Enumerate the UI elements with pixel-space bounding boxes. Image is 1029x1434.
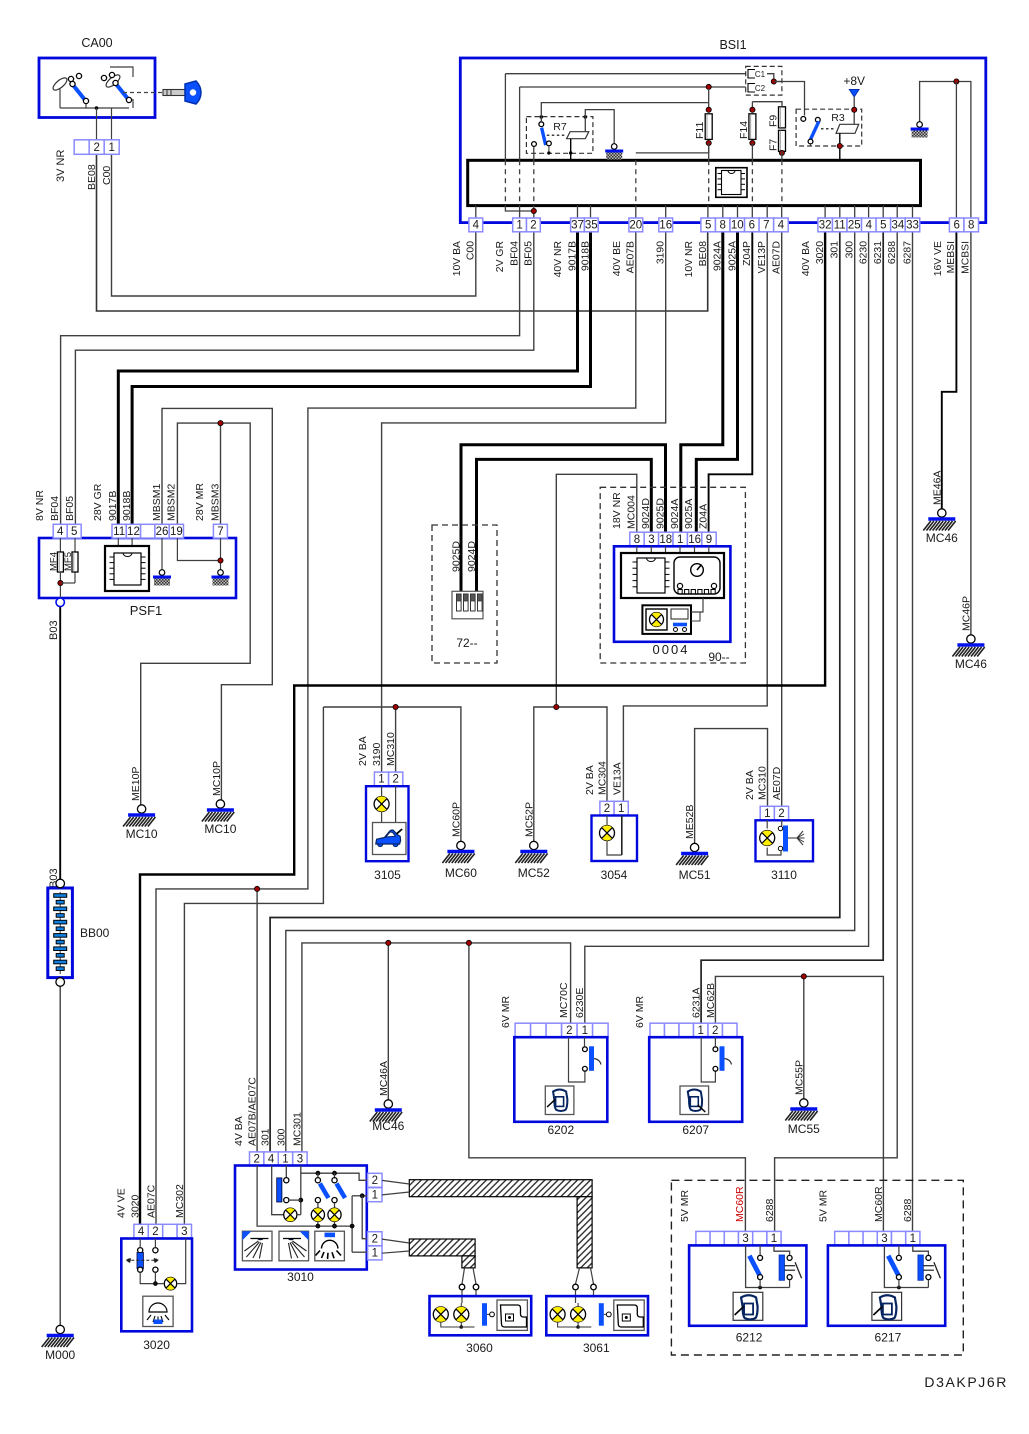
- svg-text:9017B: 9017B: [567, 241, 578, 271]
- svg-text:CA00: CA00: [81, 36, 112, 50]
- svg-text:MC60R: MC60R: [873, 1186, 885, 1222]
- svg-text:4: 4: [268, 1154, 275, 1166]
- svg-text:2V BA: 2V BA: [584, 765, 596, 795]
- svg-text:8V NR: 8V NR: [34, 490, 46, 521]
- svg-text:11: 11: [834, 220, 846, 232]
- svg-text:9025D: 9025D: [654, 498, 666, 529]
- svg-text:C1: C1: [755, 70, 766, 79]
- svg-text:4V BA: 4V BA: [233, 1116, 245, 1146]
- svg-text:2: 2: [712, 1025, 718, 1037]
- svg-text:3: 3: [648, 534, 654, 546]
- svg-text:BF04: BF04: [509, 241, 520, 266]
- svg-text:1: 1: [910, 1233, 916, 1245]
- svg-text:MC302: MC302: [174, 1184, 186, 1218]
- svg-text:8: 8: [634, 534, 640, 546]
- svg-text:MC10P: MC10P: [211, 761, 223, 796]
- svg-text:6288: 6288: [902, 1198, 914, 1222]
- svg-text:AE07C: AE07C: [146, 1184, 158, 1218]
- svg-text:7: 7: [217, 526, 223, 538]
- svg-text:16: 16: [688, 534, 701, 546]
- svg-text:72--: 72--: [456, 636, 477, 650]
- svg-text:Z04P: Z04P: [742, 241, 753, 266]
- svg-text:VE13P: VE13P: [757, 241, 768, 273]
- svg-text:3010: 3010: [287, 1270, 314, 1284]
- svg-text:F11: F11: [694, 122, 706, 139]
- svg-text:MC46: MC46: [926, 531, 958, 545]
- svg-text:3020: 3020: [815, 241, 826, 264]
- svg-text:MC51: MC51: [679, 868, 711, 882]
- svg-text:ME52B: ME52B: [684, 805, 696, 839]
- svg-text:6V MR: 6V MR: [634, 995, 646, 1028]
- svg-text:BE08: BE08: [698, 241, 709, 267]
- svg-text:1: 1: [378, 774, 384, 786]
- svg-text:2: 2: [392, 774, 398, 786]
- svg-text:3061: 3061: [583, 1341, 610, 1355]
- svg-text:90--: 90--: [708, 650, 729, 664]
- svg-text:MC004: MC004: [626, 495, 638, 529]
- svg-text:M000: M000: [45, 1348, 75, 1362]
- svg-text:1: 1: [618, 803, 624, 815]
- svg-text:MC62B: MC62B: [705, 983, 717, 1018]
- svg-text:6212: 6212: [736, 1331, 763, 1345]
- svg-text:4: 4: [138, 1226, 145, 1238]
- svg-text:32: 32: [819, 220, 832, 232]
- svg-text:10V NR: 10V NR: [684, 241, 695, 278]
- svg-text:35: 35: [585, 220, 598, 232]
- svg-text:8: 8: [720, 220, 726, 232]
- svg-text:BF05: BF05: [64, 496, 76, 521]
- svg-text:MC52P: MC52P: [523, 802, 535, 837]
- svg-text:MC310: MC310: [385, 732, 397, 766]
- svg-text:C00: C00: [101, 166, 113, 185]
- svg-text:16: 16: [659, 220, 672, 232]
- svg-text:6230: 6230: [858, 241, 869, 264]
- svg-text:1: 1: [372, 1248, 378, 1260]
- svg-text:9025A: 9025A: [727, 241, 738, 271]
- svg-text:2: 2: [778, 808, 784, 820]
- svg-text:6288: 6288: [887, 241, 898, 264]
- svg-text:3054: 3054: [601, 868, 628, 882]
- svg-text:4V VE: 4V VE: [116, 1188, 128, 1218]
- svg-text:F7: F7: [768, 139, 780, 151]
- svg-text:2: 2: [530, 220, 536, 232]
- svg-text:6231A: 6231A: [691, 988, 703, 1018]
- svg-text:3020: 3020: [130, 1194, 142, 1218]
- svg-text:4: 4: [778, 220, 785, 232]
- svg-text:9025A: 9025A: [683, 499, 695, 529]
- svg-text:40V BE: 40V BE: [612, 241, 623, 276]
- svg-text:MC55P: MC55P: [793, 1060, 805, 1095]
- svg-text:3110: 3110: [771, 868, 797, 882]
- svg-text:7: 7: [763, 220, 769, 232]
- svg-text:MC304: MC304: [597, 761, 609, 795]
- svg-text:18V NR: 18V NR: [611, 492, 623, 529]
- svg-text:9017B: 9017B: [107, 491, 119, 521]
- svg-text:4: 4: [473, 220, 480, 232]
- svg-text:5: 5: [71, 526, 77, 538]
- svg-text:+8V: +8V: [843, 74, 865, 88]
- svg-text:BE08: BE08: [86, 164, 98, 190]
- svg-text:6287: 6287: [902, 241, 913, 264]
- svg-text:6202: 6202: [547, 1123, 574, 1137]
- svg-text:MF5: MF5: [63, 552, 74, 571]
- svg-text:1: 1: [108, 142, 114, 154]
- svg-text:MC70C: MC70C: [558, 982, 570, 1018]
- svg-text:1: 1: [282, 1154, 288, 1166]
- svg-text:MC55: MC55: [788, 1122, 820, 1136]
- svg-text:2: 2: [372, 1175, 378, 1187]
- svg-text:6: 6: [749, 220, 755, 232]
- svg-text:MC52: MC52: [518, 866, 550, 880]
- svg-text:3105: 3105: [374, 868, 401, 882]
- svg-text:300: 300: [845, 241, 856, 259]
- svg-text:F14: F14: [738, 121, 750, 139]
- svg-text:3190: 3190: [656, 241, 667, 264]
- svg-text:2: 2: [93, 142, 99, 154]
- svg-text:33: 33: [906, 220, 919, 232]
- svg-text:5V MR: 5V MR: [679, 1189, 691, 1222]
- svg-text:40V NR: 40V NR: [553, 241, 564, 278]
- svg-text:AE07D: AE07D: [771, 766, 783, 800]
- svg-text:MC60P: MC60P: [450, 802, 462, 837]
- svg-text:1: 1: [372, 1190, 378, 1202]
- svg-text:3190: 3190: [371, 742, 383, 766]
- svg-text:9024D: 9024D: [640, 498, 652, 529]
- svg-text:301: 301: [260, 1128, 272, 1146]
- svg-text:MBSM3: MBSM3: [209, 484, 221, 522]
- svg-text:BSI1: BSI1: [719, 38, 746, 52]
- svg-text:MC60: MC60: [445, 866, 477, 880]
- svg-text:AE07B: AE07B: [626, 241, 637, 273]
- svg-text:VE13A: VE13A: [611, 762, 623, 795]
- svg-text:9024A: 9024A: [713, 241, 724, 271]
- svg-text:3: 3: [742, 1233, 748, 1245]
- svg-text:34: 34: [892, 220, 905, 232]
- svg-text:1: 1: [764, 808, 770, 820]
- svg-text:MCBSI: MCBSI: [961, 241, 972, 274]
- svg-text:MC60R: MC60R: [734, 1186, 746, 1222]
- svg-text:MEBSI: MEBSI: [946, 241, 957, 273]
- svg-text:MBSM2: MBSM2: [165, 484, 177, 522]
- svg-text:4: 4: [866, 220, 873, 232]
- svg-text:AE07B/AE07C: AE07B/AE07C: [247, 1077, 259, 1146]
- svg-text:0004: 0004: [653, 642, 690, 657]
- svg-text:AE07D: AE07D: [772, 241, 783, 274]
- svg-text:1: 1: [771, 1233, 777, 1245]
- svg-text:37: 37: [571, 220, 584, 232]
- svg-text:9024A: 9024A: [669, 499, 681, 529]
- svg-text:301: 301: [830, 241, 841, 259]
- svg-text:Z04A: Z04A: [698, 504, 710, 529]
- svg-text:2V BA: 2V BA: [357, 736, 369, 766]
- svg-text:MC46P: MC46P: [960, 596, 972, 631]
- svg-text:MC310: MC310: [757, 766, 769, 800]
- svg-text:5V MR: 5V MR: [817, 1189, 829, 1222]
- svg-text:40V BA: 40V BA: [801, 241, 812, 276]
- svg-text:3020: 3020: [143, 1338, 170, 1352]
- svg-text:10V BA: 10V BA: [452, 241, 463, 276]
- svg-text:MC46: MC46: [372, 1119, 404, 1133]
- svg-text:2: 2: [604, 803, 610, 815]
- svg-text:18: 18: [659, 534, 672, 546]
- svg-text:MC10: MC10: [126, 827, 158, 841]
- svg-text:ME10P: ME10P: [130, 767, 142, 801]
- svg-text:6230E: 6230E: [574, 988, 586, 1018]
- svg-text:16V VE: 16V VE: [933, 241, 944, 276]
- svg-text:28V GR: 28V GR: [92, 483, 104, 521]
- svg-text:MC10: MC10: [204, 822, 236, 836]
- svg-text:2: 2: [152, 1226, 158, 1238]
- svg-text:10: 10: [731, 220, 744, 232]
- svg-text:BB00: BB00: [80, 926, 110, 940]
- svg-text:6V MR: 6V MR: [500, 995, 512, 1028]
- svg-text:R7: R7: [553, 121, 567, 133]
- svg-text:3060: 3060: [466, 1341, 493, 1355]
- svg-text:MF4: MF4: [49, 552, 60, 571]
- svg-text:2: 2: [372, 1234, 378, 1246]
- svg-text:12: 12: [127, 526, 140, 538]
- svg-text:3: 3: [881, 1233, 887, 1245]
- svg-text:4: 4: [57, 526, 64, 538]
- svg-text:R3: R3: [831, 112, 845, 124]
- svg-text:BF05: BF05: [524, 241, 535, 266]
- svg-text:9: 9: [706, 534, 712, 546]
- svg-text:2: 2: [253, 1154, 259, 1166]
- svg-text:5: 5: [705, 220, 711, 232]
- svg-text:D3AKPJ6R: D3AKPJ6R: [924, 1374, 1008, 1390]
- svg-text:20: 20: [629, 220, 642, 232]
- svg-text:C00: C00: [466, 241, 477, 260]
- svg-text:9018B: 9018B: [121, 491, 133, 521]
- svg-text:6207: 6207: [682, 1123, 709, 1137]
- svg-text:MBSM1: MBSM1: [151, 484, 163, 522]
- svg-text:9025D: 9025D: [451, 541, 463, 572]
- svg-text:B03: B03: [48, 620, 60, 640]
- svg-text:PSF1: PSF1: [130, 603, 163, 618]
- svg-text:6: 6: [953, 220, 959, 232]
- svg-text:6217: 6217: [875, 1331, 902, 1345]
- svg-text:9024D: 9024D: [466, 541, 478, 572]
- svg-text:MC46A: MC46A: [378, 1061, 390, 1096]
- svg-text:5: 5: [880, 220, 886, 232]
- svg-text:C2: C2: [755, 84, 766, 93]
- svg-text:3V NR: 3V NR: [55, 150, 67, 182]
- svg-text:F9: F9: [768, 115, 780, 127]
- svg-text:1: 1: [698, 1025, 704, 1037]
- svg-text:2V GR: 2V GR: [495, 241, 506, 273]
- svg-text:6231: 6231: [873, 241, 884, 264]
- svg-text:9018B: 9018B: [580, 241, 591, 271]
- svg-text:11: 11: [113, 526, 125, 538]
- svg-text:6288: 6288: [764, 1198, 776, 1222]
- svg-text:26: 26: [156, 526, 169, 538]
- svg-text:28V MR: 28V MR: [194, 483, 206, 521]
- svg-text:2V BA: 2V BA: [744, 770, 756, 800]
- svg-text:300: 300: [275, 1128, 287, 1146]
- svg-text:2: 2: [566, 1025, 572, 1037]
- svg-text:8: 8: [968, 220, 974, 232]
- svg-text:1: 1: [516, 220, 522, 232]
- svg-text:BF04: BF04: [49, 496, 61, 521]
- svg-text:MC46: MC46: [955, 657, 987, 671]
- svg-text:MC301: MC301: [291, 1112, 303, 1146]
- svg-text:25: 25: [848, 220, 861, 232]
- svg-text:1: 1: [677, 534, 683, 546]
- svg-text:ME46A: ME46A: [931, 471, 943, 505]
- svg-text:1: 1: [582, 1025, 588, 1037]
- svg-text:3: 3: [181, 1226, 187, 1238]
- svg-text:19: 19: [170, 526, 183, 538]
- svg-text:3: 3: [297, 1154, 303, 1166]
